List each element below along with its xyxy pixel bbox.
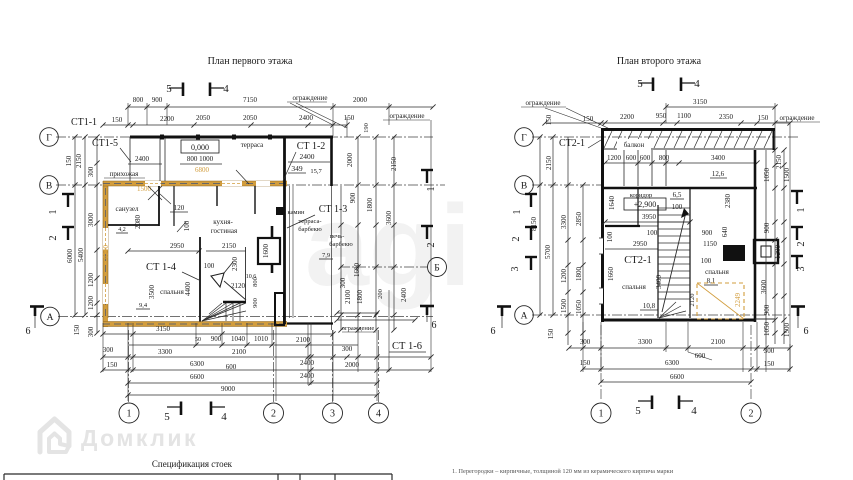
svg-text:1500: 1500 <box>560 299 568 314</box>
svg-text:150: 150 <box>107 361 118 369</box>
svg-text:1: 1 <box>127 409 132 420</box>
svg-text:5: 5 <box>164 411 170 423</box>
svg-text:15,7: 15,7 <box>310 168 322 175</box>
svg-text:200: 200 <box>377 289 384 299</box>
svg-text:2: 2 <box>271 409 276 420</box>
svg-text:2000: 2000 <box>346 153 354 168</box>
svg-text:2300: 2300 <box>231 257 239 272</box>
svg-text:СТ 1-6: СТ 1-6 <box>392 341 422 352</box>
svg-text:3400: 3400 <box>655 275 663 290</box>
svg-text:3400: 3400 <box>711 154 726 162</box>
svg-text:100: 100 <box>204 262 215 270</box>
svg-text:100: 100 <box>606 231 614 242</box>
svg-text:1. Перегородки – кирпичные, то: 1. Перегородки – кирпичные, толщиной 120… <box>452 468 674 475</box>
svg-text:2950: 2950 <box>633 240 648 248</box>
svg-text:900: 900 <box>349 192 357 203</box>
svg-text:9,4: 9,4 <box>139 302 148 309</box>
svg-text:2150: 2150 <box>222 242 237 250</box>
svg-text:2150: 2150 <box>545 156 553 171</box>
svg-text:А: А <box>47 313 54 323</box>
svg-text:2950: 2950 <box>170 242 185 250</box>
svg-text:Г: Г <box>46 133 52 143</box>
svg-text:150: 150 <box>65 155 73 166</box>
svg-text:1500: 1500 <box>783 168 791 183</box>
svg-text:План второго этажа: План второго этажа <box>617 56 702 67</box>
svg-text:Домклик: Домклик <box>81 425 198 451</box>
svg-text:4: 4 <box>376 409 381 420</box>
svg-text:10,8: 10,8 <box>643 302 656 310</box>
svg-text:2080: 2080 <box>134 215 142 230</box>
svg-text:3000: 3000 <box>87 213 95 228</box>
svg-text:1200: 1200 <box>607 154 622 162</box>
svg-text:6600: 6600 <box>190 373 205 381</box>
svg-text:150: 150 <box>545 114 553 125</box>
svg-text:2400: 2400 <box>400 288 408 303</box>
svg-text:1600: 1600 <box>262 244 270 259</box>
svg-text:2100: 2100 <box>344 290 352 305</box>
svg-text:12,6: 12,6 <box>712 170 725 178</box>
svg-text:1200: 1200 <box>87 296 95 311</box>
svg-text:600: 600 <box>626 154 637 162</box>
svg-text:150: 150 <box>758 114 769 122</box>
svg-text:1050: 1050 <box>763 322 771 337</box>
svg-text:печь-: печь- <box>330 233 345 240</box>
svg-text:300: 300 <box>87 166 95 177</box>
svg-text:ограждение: ограждение <box>292 94 327 102</box>
svg-text:2150: 2150 <box>390 157 398 172</box>
svg-text:1: 1 <box>599 409 604 420</box>
svg-text:4: 4 <box>221 411 227 423</box>
svg-text:190: 190 <box>363 123 370 133</box>
svg-text:Г: Г <box>521 133 527 143</box>
svg-text:4400: 4400 <box>184 282 192 297</box>
svg-text:СТ1-1: СТ1-1 <box>71 117 97 128</box>
svg-text:Спецификация стоек: Спецификация стоек <box>152 459 233 469</box>
svg-text:0,000: 0,000 <box>191 143 209 152</box>
svg-text:Б: Б <box>434 263 439 273</box>
svg-text:900: 900 <box>252 298 259 308</box>
svg-text:терраса-: терраса- <box>298 218 321 225</box>
svg-text:3: 3 <box>796 267 807 272</box>
svg-text:50: 50 <box>195 337 201 343</box>
svg-text:3300: 3300 <box>158 348 173 356</box>
svg-text:6300: 6300 <box>190 360 205 368</box>
svg-text:5700: 5700 <box>544 245 552 260</box>
svg-text:150: 150 <box>580 359 591 367</box>
svg-text:300: 300 <box>580 338 591 346</box>
svg-text:1640: 1640 <box>608 196 616 211</box>
svg-text:1050: 1050 <box>575 300 583 315</box>
svg-text:1800: 1800 <box>366 198 374 213</box>
svg-text:349: 349 <box>291 164 303 173</box>
svg-text:5: 5 <box>166 83 172 95</box>
svg-text:1500: 1500 <box>783 323 791 338</box>
svg-text:300: 300 <box>87 326 95 337</box>
svg-text:1: 1 <box>426 187 437 192</box>
svg-text:2350: 2350 <box>719 113 734 121</box>
svg-text:СТ2-1: СТ2-1 <box>559 138 585 149</box>
svg-text:СТ1-5: СТ1-5 <box>92 138 118 149</box>
svg-text:900: 900 <box>763 304 771 315</box>
svg-text:300: 300 <box>764 347 775 355</box>
svg-text:1200: 1200 <box>774 245 782 260</box>
svg-text:2400: 2400 <box>299 114 314 122</box>
svg-text:спальня: спальня <box>160 288 184 296</box>
svg-text:800: 800 <box>133 96 144 104</box>
svg-text:150: 150 <box>344 114 355 122</box>
svg-text:800 1000: 800 1000 <box>187 155 214 163</box>
svg-text:В: В <box>521 181 527 191</box>
svg-text:1: 1 <box>796 208 807 213</box>
svg-text:2: 2 <box>511 237 522 242</box>
svg-text:6: 6 <box>804 326 809 337</box>
svg-text:А: А <box>521 311 528 321</box>
svg-text:2: 2 <box>426 243 437 248</box>
svg-text:спальня: спальня <box>705 268 729 276</box>
svg-text:В: В <box>46 181 52 191</box>
svg-text:900: 900 <box>152 96 163 104</box>
svg-text:СТ 1-4: СТ 1-4 <box>146 262 177 273</box>
svg-text:6: 6 <box>432 320 437 331</box>
svg-text:7,9: 7,9 <box>322 252 330 259</box>
svg-text:СТ 1-2: СТ 1-2 <box>297 141 326 152</box>
svg-text:100: 100 <box>672 203 683 211</box>
svg-text:1150: 1150 <box>703 240 717 248</box>
svg-text:600: 600 <box>640 154 651 162</box>
svg-text:2050: 2050 <box>196 114 211 122</box>
svg-text:900: 900 <box>702 229 713 237</box>
svg-text:2100: 2100 <box>296 336 311 344</box>
svg-text:3: 3 <box>510 267 521 272</box>
svg-text:800: 800 <box>659 154 670 162</box>
svg-text:3600: 3600 <box>385 211 393 226</box>
svg-text:1800: 1800 <box>575 267 583 282</box>
svg-text:кухня-: кухня- <box>213 218 233 226</box>
svg-text:2249: 2249 <box>734 293 742 308</box>
svg-text:100: 100 <box>701 257 712 265</box>
svg-text:6: 6 <box>26 326 31 337</box>
svg-text:2000: 2000 <box>345 361 360 369</box>
svg-text:2380: 2380 <box>724 194 732 209</box>
svg-text:150: 150 <box>547 328 555 339</box>
svg-text:2850: 2850 <box>575 212 583 227</box>
svg-text:100: 100 <box>183 220 191 231</box>
svg-text:1040: 1040 <box>231 335 246 343</box>
svg-text:прихожая: прихожая <box>110 170 139 178</box>
svg-text:6300: 6300 <box>665 359 680 367</box>
svg-text:2: 2 <box>749 409 754 420</box>
svg-text:спальня: спальня <box>622 283 646 291</box>
svg-text:2150: 2150 <box>775 155 783 170</box>
svg-text:санузел: санузел <box>116 205 139 213</box>
svg-text:800: 800 <box>252 277 259 287</box>
svg-text:6800: 6800 <box>195 166 210 174</box>
svg-text:1600: 1600 <box>353 263 361 278</box>
svg-text:4: 4 <box>691 405 697 417</box>
svg-text:1200: 1200 <box>560 269 568 284</box>
svg-text:камин: камин <box>287 209 305 216</box>
svg-text:+2,900: +2,900 <box>634 200 657 209</box>
svg-text:2: 2 <box>48 236 59 241</box>
svg-text:1100: 1100 <box>677 112 691 120</box>
svg-text:3150: 3150 <box>156 325 171 333</box>
svg-text:2100: 2100 <box>232 348 247 356</box>
svg-text:640: 640 <box>721 226 729 237</box>
svg-text:4: 4 <box>223 83 229 95</box>
svg-text:балкон: балкон <box>624 141 645 149</box>
svg-text:1500: 1500 <box>137 185 152 193</box>
svg-text:120: 120 <box>174 204 185 212</box>
svg-text:2150: 2150 <box>75 154 83 169</box>
svg-text:5: 5 <box>635 405 641 417</box>
svg-text:1200: 1200 <box>87 273 95 288</box>
svg-text:План первого этажа: План первого этажа <box>208 56 293 67</box>
svg-text:7150: 7150 <box>243 96 258 104</box>
svg-text:СТ 1-3: СТ 1-3 <box>319 204 348 215</box>
svg-text:2400: 2400 <box>300 359 315 367</box>
svg-text:ограждение: ограждение <box>779 114 814 122</box>
svg-text:6600: 6600 <box>670 373 685 381</box>
svg-text:ограждение: ограждение <box>525 99 560 107</box>
svg-text:150: 150 <box>764 360 775 368</box>
svg-text:5400: 5400 <box>77 248 85 263</box>
svg-text:2: 2 <box>796 242 807 247</box>
svg-text:3300: 3300 <box>638 338 653 346</box>
svg-text:2400: 2400 <box>300 372 315 380</box>
svg-text:300: 300 <box>103 346 114 354</box>
svg-text:6,5: 6,5 <box>673 191 682 199</box>
svg-text:2400: 2400 <box>300 152 315 161</box>
svg-text:6000: 6000 <box>66 249 74 264</box>
svg-text:1800: 1800 <box>356 290 364 305</box>
svg-text:3: 3 <box>330 409 335 420</box>
svg-text:3500: 3500 <box>148 285 156 300</box>
svg-text:терраса: терраса <box>241 141 264 149</box>
svg-text:2100: 2100 <box>711 338 726 346</box>
svg-text:1660: 1660 <box>607 267 615 282</box>
svg-text:гостиная: гостиная <box>211 227 238 235</box>
svg-text:СТ2-1: СТ2-1 <box>624 255 651 266</box>
svg-text:1: 1 <box>48 210 59 215</box>
svg-text:6: 6 <box>491 326 496 337</box>
svg-text:1010: 1010 <box>254 335 269 343</box>
svg-text:8,1: 8,1 <box>707 277 716 285</box>
svg-text:150: 150 <box>112 116 123 124</box>
svg-text:3150: 3150 <box>693 98 708 106</box>
svg-text:9000: 9000 <box>221 385 236 393</box>
svg-text:900: 900 <box>763 222 771 233</box>
svg-text:ограждение: ограждение <box>389 112 424 120</box>
svg-text:100: 100 <box>647 229 658 237</box>
svg-text:2000: 2000 <box>353 96 368 104</box>
svg-text:150: 150 <box>73 324 81 335</box>
svg-text:900: 900 <box>211 335 222 343</box>
svg-text:6300: 6300 <box>102 245 110 260</box>
svg-text:1050: 1050 <box>763 168 771 183</box>
svg-text:5: 5 <box>637 78 643 90</box>
svg-text:барбекю: барбекю <box>298 226 322 233</box>
svg-text:950: 950 <box>656 112 667 120</box>
svg-text:2400: 2400 <box>135 155 150 163</box>
svg-text:3600: 3600 <box>760 280 768 295</box>
svg-text:2200: 2200 <box>620 113 635 121</box>
svg-text:600: 600 <box>226 363 237 371</box>
svg-text:3300: 3300 <box>560 215 568 230</box>
svg-text:300: 300 <box>339 277 347 288</box>
svg-text:4: 4 <box>694 78 700 90</box>
svg-text:1: 1 <box>512 210 523 215</box>
svg-text:3950: 3950 <box>642 213 657 221</box>
svg-text:2050: 2050 <box>243 114 258 122</box>
svg-text:4,2: 4,2 <box>118 227 126 233</box>
svg-text:300: 300 <box>342 345 353 353</box>
